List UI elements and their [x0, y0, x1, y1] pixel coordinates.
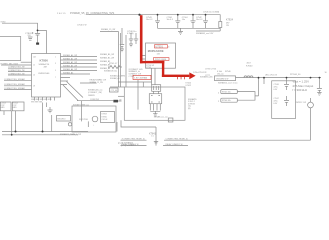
- svg-text:12: 12: [33, 65, 35, 67]
- svg-text:1N4148W 4 W: 1N4148W 4 W: [216, 78, 229, 80]
- svg-text:10u 6.3: 10u 6.3: [196, 19, 202, 21]
- svg-text:Vout = 1.25V: Vout = 1.25V: [292, 79, 309, 83]
- svg-text:VSS VSS VSS: VSS VSS VSS: [31, 101, 43, 103]
- svg-text:C7763: C7763: [146, 67, 151, 69]
- svg-text:POWER_SB5, 1N5V: POWER_SB5, 1N5V: [1, 63, 19, 65]
- svg-text:10: 10: [325, 72, 327, 74]
- svg-text:144: 144: [33, 56, 36, 58]
- svg-text:14: 14: [33, 75, 35, 77]
- svg-text:SDRAM_xxx_xxx: SDRAM_xxx_xxx: [154, 116, 168, 119]
- svg-text:(B): (B): [188, 108, 191, 110]
- svg-text:RELAY/DIMM0 1 W: RELAY/DIMM0 1 W: [90, 78, 107, 81]
- svg-text:6.3V(B): 6.3V(B): [127, 33, 134, 35]
- svg-text:SDRA-P14: SDRA-P14: [39, 63, 50, 66]
- svg-text:C7545 10u 6.3V(B): C7545 10u 6.3V(B): [203, 12, 220, 14]
- svg-text:K7959: K7959: [102, 114, 107, 116]
- svg-text:SDRAM_15_2W: SDRAM_15_2W: [90, 81, 103, 84]
- svg-text:K7410: K7410: [186, 82, 191, 84]
- svg-text:XW7412 1 W: XW7412 1 W: [295, 102, 306, 104]
- svg-text:C.47uF: C.47uF: [102, 119, 109, 121]
- svg-text:CONNECTING_2W: CONNECTING_2W: [8, 70, 25, 72]
- svg-text:SDRAM_B5 10u: SDRAM_B5 10u: [104, 70, 117, 73]
- svg-text:K7924: K7924: [226, 19, 234, 22]
- svg-text:CONN 3V3: CONN 3V3: [90, 99, 99, 101]
- svg-text:C7540 1 W: C7540 1 W: [77, 24, 87, 26]
- svg-text:PP3V3_SDRM: PP3V3_SDRM: [155, 59, 167, 61]
- svg-text:2CONNECTING_HDMI1_A: 2CONNECTING_HDMI1_A: [122, 137, 146, 140]
- svg-text:SDRAM_DIMM_xxx: SDRAM_DIMM_xxx: [73, 104, 89, 107]
- svg-text:SDRAM_B0_2W: SDRAM_B0_2W: [100, 53, 114, 56]
- svg-text:CM93CS66: CM93CS66: [38, 73, 50, 75]
- svg-text:SDRAM_A3_2W: SDRAM_A3_2W: [63, 64, 77, 67]
- svg-text:CN_xxx: CN_xxx: [217, 73, 224, 75]
- svg-text:CONNECTING_2W: CONNECTING_2W: [8, 67, 25, 69]
- svg-text:1.5: 1.5: [151, 136, 154, 138]
- svg-text:R7540: R7540: [225, 71, 231, 73]
- svg-text:1.8V=CPU-12F: 1.8V=CPU-12F: [193, 72, 207, 74]
- svg-text:U7501: U7501: [155, 45, 163, 49]
- svg-text:C75_40: C75_40: [111, 90, 117, 92]
- svg-text:18: 18: [33, 85, 35, 87]
- svg-text:SDRAM05_xxx 3.3V: SDRAM05_xxx 3.3V: [196, 32, 214, 35]
- svg-text:10u: 10u: [182, 19, 185, 21]
- svg-text:(CONNECT_2W): (CONNECT_2W): [88, 92, 102, 94]
- svg-text:BXCW10: BXCW10: [58, 119, 66, 121]
- svg-text:4557: 4557: [247, 63, 251, 65]
- svg-text:CONNECTING_2W: CONNECTING_2W: [8, 73, 25, 75]
- svg-text:1: 1: [55, 56, 56, 58]
- svg-text:SDRAM_A5: SDRAM_A5: [63, 71, 73, 74]
- svg-text:4M: 4M: [44, 67, 47, 69]
- svg-text:R7546 10k: R7546 10k: [222, 100, 231, 102]
- svg-text:SDRAM_C5_2W: SDRAM_C5_2W: [101, 28, 115, 31]
- svg-text:C7763: C7763: [129, 76, 134, 78]
- svg-text:2 0 0 1 5: 2 0 0 1 5: [57, 13, 66, 15]
- svg-text:SDRAM15_DIMM_0_2W: SDRAM15_DIMM_0_2W: [60, 133, 81, 136]
- svg-text:1.8V_SDRAM: 1.8V_SDRAM: [134, 77, 147, 80]
- svg-text:CONNECTING_SDRAM: CONNECTING_SDRAM: [4, 87, 25, 90]
- svg-text:R7545 10k: R7545 10k: [222, 92, 231, 94]
- svg-text:MX25L6445E: MX25L6445E: [148, 49, 164, 53]
- svg-text:LED_ON 1.5V: LED_ON 1.5V: [265, 74, 278, 76]
- svg-text:10u 6.3: 10u 6.3: [167, 19, 173, 21]
- svg-text:f = 300 kHz: f = 300 kHz: [292, 88, 307, 92]
- svg-text:RELAY_DIMM1 1 W: RELAY_DIMM1 1 W: [166, 143, 183, 146]
- svg-text:SDRAM_B1_2W: SDRAM_B1_2W: [100, 57, 114, 60]
- svg-text:SDRAM_A1_2W: SDRAM_A1_2W: [63, 57, 77, 60]
- svg-text:DIMM15: DIMM15: [88, 95, 95, 97]
- svg-text:[2-25] SDRAM15: [2-25] SDRAM15: [121, 144, 137, 147]
- svg-text:1W: 1W: [226, 25, 229, 27]
- svg-text:KT810: KT810: [102, 116, 107, 118]
- svg-text:SDRAM_A15_xxx: SDRAM_A15_xxx: [88, 88, 102, 91]
- svg-text:GND: GND: [13, 107, 18, 109]
- svg-text:CONNECTING_SDRAM: CONNECTING_SDRAM: [4, 78, 25, 81]
- svg-text:U7412: U7412: [186, 85, 192, 87]
- svg-text:SDRAM_A0_2W: SDRAM_A0_2W: [63, 54, 77, 57]
- svg-text:DXCY810: DXCY810: [79, 119, 89, 121]
- svg-text:7: 7: [55, 77, 56, 79]
- svg-text:3: 3: [55, 63, 56, 65]
- svg-text:SDRAM_A6: SDRAM_A6: [110, 77, 120, 80]
- svg-text:[2-24] SDRAM15: [2-24] SDRAM15: [118, 141, 134, 144]
- svg-text:CONNECTING_HDMI1_A: CONNECTING_HDMI1_A: [166, 137, 189, 140]
- svg-text:SDRAM15_A15: SDRAM15_A15: [200, 76, 213, 79]
- svg-text:KT800: KT800: [40, 59, 49, 63]
- svg-text:R7541 4.7: R7541 4.7: [109, 63, 117, 65]
- svg-text:5: 5: [55, 70, 56, 72]
- svg-text:POWER_S5_3V_CONNECTING_5VS: POWER_S5_3V_CONNECTING_5VS: [70, 11, 115, 15]
- svg-text:10u 6.3: 10u 6.3: [146, 19, 152, 21]
- svg-text:SDRAM_A2_2W: SDRAM_A2_2W: [63, 61, 77, 64]
- svg-text:220: 220: [28, 35, 31, 37]
- svg-text:C7763 C7756: C7763 C7756: [205, 69, 216, 71]
- svg-text:CONNECTING_SDRAM: CONNECTING_SDRAM: [4, 83, 25, 86]
- svg-text:SDRAM15_xxx 1:1.5xx: SDRAM15_xxx 1:1.5xx: [218, 82, 237, 85]
- svg-text:PP1V05_S0: PP1V05_S0: [290, 74, 300, 76]
- svg-text:K7540: K7540: [246, 65, 253, 67]
- svg-text:GND: GND: [1, 107, 6, 109]
- svg-text:SDRAM_A4_2W: SDRAM_A4_2W: [63, 68, 77, 71]
